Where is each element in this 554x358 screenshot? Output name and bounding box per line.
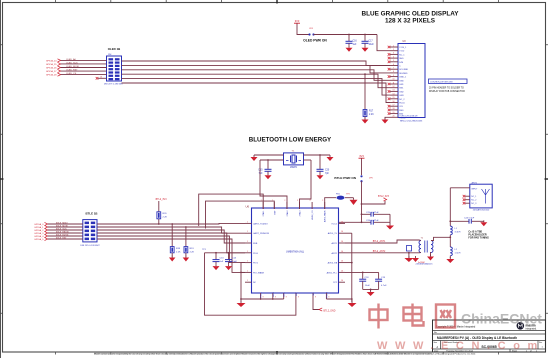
svg-text:2: 2 (310, 200, 311, 202)
svg-text:ANT2: ANT2 (332, 252, 338, 255)
svg-text:V DD: V DD (399, 51, 404, 53)
capacitor C14 (228, 252, 230, 254)
U6 top pin REF (273, 202, 275, 209)
svg-text:1: 1 (247, 231, 248, 233)
U6 left pin PIO1 (245, 262, 252, 264)
svg-text:PIO_WAKE: PIO_WAKE (253, 271, 265, 274)
ground balun left (415, 256, 417, 258)
svg-text:5: 5 (393, 60, 394, 62)
wire rail to header pin2 (377, 35, 390, 51)
svg-text:11: 11 (393, 82, 395, 84)
svg-text:BLUETOOTH LOW ENERGY: BLUETOOTH LOW ENERGY (249, 137, 332, 144)
svg-text:GPIOA_1: GPIOA_1 (34, 226, 44, 229)
svg-text:9: 9 (298, 297, 299, 299)
svg-text:8: 8 (393, 71, 394, 73)
U6 top pin AVD0_PADR (324, 202, 326, 209)
capacitor C21 placeholder (407, 246, 412, 252)
svg-text:HCLD: HCLD (399, 103, 405, 105)
U6 right pin AVD0_PLL (339, 271, 346, 273)
border mid ticks (0, 178, 4, 180)
wire bundle BTLE signals (97, 222, 245, 225)
svg-text:1uF: 1uF (353, 44, 358, 46)
svg-text:3: 3 (393, 53, 394, 55)
svg-text:16: 16 (341, 251, 343, 253)
svg-text:1: 1 (247, 261, 248, 263)
note box 20-pin header (429, 79, 468, 84)
U6 bottom pin AIO0 (272, 293, 274, 299)
svg-text:10uF: 10uF (365, 285, 371, 287)
svg-text:OLED_SCK: OLED_SCK (66, 62, 78, 64)
svg-text:15: 15 (393, 97, 395, 99)
svg-text:FOR PAD TUNING: FOR PAD TUNING (468, 236, 489, 239)
svg-text:2: 2 (297, 200, 298, 202)
svg-text:BTL2_3V3: BTL2_3V3 (156, 199, 168, 201)
svg-text:NHD-2.23-12832UCB3: NHD-2.23-12832UCB3 (400, 121, 423, 123)
resistor R17 (364, 74, 366, 109)
wire SEL pin flag (313, 299, 319, 310)
wire jumper down to VCC2 (361, 181, 363, 222)
svg-text:2: 2 (284, 200, 285, 202)
wire AVD0_PA stub (345, 262, 352, 264)
U6 left pin PIO_WAKE (245, 271, 252, 273)
svg-text:V SS_1: V SS_1 (399, 47, 407, 49)
svg-text:2.2K: 2.2K (369, 114, 374, 116)
svg-text:9: 9 (286, 297, 287, 299)
svg-text:AVD0_1V: AVD0_1V (328, 232, 338, 235)
svg-text:UMB9766A (NL): UMB9766A (NL) (286, 250, 304, 253)
svg-text:U6: U6 (246, 205, 250, 209)
U6 right pin ANT2 (339, 252, 346, 254)
svg-text:13: 13 (100, 77, 102, 79)
svg-text:GPIOA_24: GPIOA_24 (46, 59, 57, 62)
capacitor C13 (215, 252, 217, 254)
svg-text:SSB: SSB (253, 243, 258, 245)
connector display header body (398, 44, 425, 118)
svg-text:16: 16 (341, 261, 343, 263)
capacitor C18 (362, 272, 364, 274)
svg-text:NC: NC (253, 282, 257, 284)
resistor R18 (171, 223, 173, 225)
svg-text:1: 1 (393, 45, 394, 47)
svg-text:NC_1: NC_1 (471, 196, 477, 198)
capacitor C16 (348, 34, 350, 36)
svg-text:7: 7 (393, 68, 394, 70)
svg-text:BTL2_ANT2: BTL2_ANT2 (373, 250, 386, 253)
wire BTLE_RDYN left (48, 235, 83, 237)
svg-text:2.2K: 2.2K (163, 216, 168, 218)
svg-text:BTLE_RST: BTLE_RST (56, 237, 67, 239)
ground right bus (351, 301, 353, 303)
svg-text:INPUT: INPUT (471, 188, 478, 190)
svg-text:BTLE PWR ON: BTLE PWR ON (334, 176, 356, 180)
wire caps to ground (389, 214, 391, 224)
svg-text:XTAL1: XTAL1 (262, 210, 265, 217)
wire BTLE_RST left (48, 238, 83, 240)
svg-text:BTLE 1B: BTLE 1B (85, 212, 97, 216)
U6 bottom pin SEL (312, 293, 314, 299)
connector OLED 1B body (107, 56, 122, 81)
wire row4 extension (205, 252, 246, 254)
wire BTLE_SCK left (48, 229, 83, 231)
svg-text:GPIOA_25: GPIOA_25 (46, 63, 57, 66)
U6 top pin XTAL3 (299, 202, 301, 209)
svg-text:R17: R17 (369, 111, 374, 113)
wire U6 top pin2 step (206, 201, 275, 228)
U6 left pin SSB (245, 242, 252, 244)
svg-text:9: 9 (263, 297, 264, 299)
ground C18 C19 (370, 290, 372, 292)
svg-text:1: 1 (247, 270, 248, 272)
crystal Y1 body (284, 153, 304, 165)
U6 right pin VCC2 (339, 222, 346, 224)
svg-text:GND_1: GND_1 (399, 77, 407, 79)
svg-text:NC_2: NC_2 (399, 99, 405, 101)
svg-text:12: 12 (393, 86, 395, 88)
svg-text:BTL2_GND: BTL2_GND (324, 311, 336, 313)
svg-text:integrated.: integrated. (526, 328, 538, 331)
wire U6 pin to ferrite (325, 198, 336, 209)
svg-text:C24 0.5pF: C24 0.5pF (464, 217, 475, 219)
U6 left pin UART_TX&SIO (245, 222, 252, 224)
wire crystal right rail (304, 154, 331, 156)
U6 left pin PIO0 (245, 252, 252, 254)
svg-text:OLED_CS: OLED_CS (66, 73, 77, 75)
svg-text:1.5nH: 1.5nH (455, 252, 461, 254)
svg-text:UART_RX/MOSI: UART_RX/MOSI (253, 232, 269, 235)
svg-text:2450AT18D0100: 2450AT18D0100 (473, 209, 490, 212)
ground under header (385, 117, 390, 118)
U6 bottom pin VSS_1 (260, 293, 262, 299)
wire antenna main vertical (449, 188, 451, 226)
svg-text:20 PIN HEADER TO SOLDER TO: 20 PIN HEADER TO SOLDER TO (429, 87, 464, 90)
svg-text:GPIOA_3: GPIOA_3 (34, 232, 44, 235)
ground right of crystal (329, 155, 331, 157)
svg-text:D/M: D/M (399, 62, 403, 64)
svg-text:GPIOA_4: GPIOA_4 (34, 235, 44, 238)
svg-text:1: 1 (247, 280, 248, 282)
wire OLED_CS (61, 74, 107, 76)
svg-text:SHD: SHD (399, 58, 404, 60)
svg-text:1: 1 (247, 241, 248, 243)
wire AVD0_1V stub (345, 232, 352, 234)
svg-text:GPIOA_28: GPIOA_28 (46, 74, 57, 77)
wire trunk left pins (241, 263, 245, 302)
wire caps common to ground (363, 288, 379, 290)
svg-text:OLED-128-32-BLUE: OLED-128-32-BLUE (399, 116, 418, 118)
svg-text:BTLE_RDYN: BTLE_RDYN (56, 234, 69, 236)
svg-text:OLED PWR ON: OLED PWR ON (303, 39, 327, 43)
svg-text:7pF: 7pF (259, 173, 264, 175)
svg-text:2.2K: 2.2K (190, 251, 195, 253)
svg-text:DNI 2X7 0.1IN SMT: DNI 2X7 0.1IN SMT (104, 83, 124, 85)
capacitor C25 (361, 213, 363, 215)
svg-text:BTLE_MOSI: BTLE_MOSI (56, 225, 68, 227)
wire OLED_RST (61, 70, 107, 72)
wire crystal left rail (254, 154, 284, 156)
svg-text:AVD0_PADR: AVD0_PADR (324, 210, 327, 222)
border zone ticks (0, 44, 3, 46)
svg-text:AVD0_PA: AVD0_PA (328, 262, 338, 265)
power arrow after ferrite (350, 200, 358, 205)
svg-text:BTL2_ANT1: BTL2_ANT1 (373, 240, 386, 243)
svg-text:OLED_MOSI: OLED_MOSI (66, 66, 79, 68)
svg-text:13: 13 (393, 90, 395, 92)
svg-text:4.7nF: 4.7nF (381, 285, 387, 287)
svg-text:C25 0.047uF: C25 0.047uF (366, 212, 379, 214)
svg-text:RES: RES (399, 110, 404, 112)
svg-text:17: 17 (393, 105, 395, 107)
svg-text:4: 4 (393, 56, 394, 58)
U6 top pin XTAL2 (286, 202, 288, 209)
svg-text:3V3: 3V3 (295, 19, 300, 23)
svg-text:16: 16 (341, 231, 343, 233)
capacitor C17 (364, 34, 366, 36)
disclaimer text (94, 353, 432, 355)
wire 3V3 to JP4 (297, 26, 309, 35)
inductor L1 (450, 226, 452, 229)
wire U6 top pin1 step (199, 194, 264, 226)
wire XTAL2 to U6 (304, 159, 312, 161)
U6 right pin AVD0_1V (339, 232, 346, 234)
wire BTL2_ANT1 (345, 240, 420, 243)
resistor R19 (185, 226, 187, 228)
wire OLED power rail (314, 34, 378, 36)
svg-text:CON-HDR-20P-SMT-DNI: CON-HDR-20P-SMT-DNI (430, 81, 453, 83)
svg-text:2450BM15A0015: 2450BM15A0015 (416, 263, 434, 266)
svg-text:10pF: 10pF (232, 261, 238, 263)
svg-text:SDI/SBD: SDI/SBD (399, 73, 408, 75)
wire L1 to node (449, 235, 451, 247)
svg-text:2: 2 (393, 49, 394, 51)
wire L2 to ground (449, 256, 451, 258)
wire ANT2 to ground (408, 253, 410, 258)
U6 bottom pin RST (295, 293, 297, 299)
title block frame (433, 320, 546, 352)
capacitor C20 (319, 154, 321, 156)
U6 bottom pin VSS_2 (325, 293, 327, 299)
resistor R20 (157, 212, 161, 219)
U6 right pin 1P2 (339, 281, 346, 283)
svg-text:GPIOA_2: GPIOA_2 (34, 229, 44, 232)
svg-text:18: 18 (393, 108, 395, 110)
svg-text:PIO0: PIO0 (253, 253, 259, 255)
svg-text:6: 6 (393, 64, 394, 66)
U6 left pin UART_RX/MOSI (245, 232, 252, 234)
svg-text:128 X 32 PIXELS: 128 X 32 PIXELS (385, 18, 436, 25)
pin stub with x (OLED 1B pin 13) (98, 77, 107, 79)
capacitor C15 (267, 159, 269, 161)
ground left of crystal (253, 155, 255, 157)
svg-text:C20: C20 (325, 170, 330, 172)
maxim logo (517, 322, 525, 330)
svg-text:OLED 1B: OLED 1B (108, 47, 121, 51)
wire VSS2 to ground (326, 299, 352, 302)
U6 right pin ANT1 (339, 242, 346, 244)
svg-text:DNI: DNI (108, 54, 112, 56)
ground after C24 (483, 220, 485, 222)
ground ANT2 (408, 256, 410, 258)
net flag BTL2_GND (319, 308, 322, 311)
wire long reset loop (205, 253, 296, 315)
svg-text:16MHz: 16MHz (290, 167, 298, 169)
svg-text:BTLE_SCK: BTLE_SCK (56, 228, 67, 230)
svg-text:2: 2 (322, 200, 323, 202)
svg-text:16: 16 (393, 101, 395, 103)
sheet edge line (0, 0, 2, 358)
svg-text:C17: C17 (369, 41, 374, 43)
svg-text:1uF: 1uF (220, 261, 224, 263)
svg-text:NC_3: NC_3 (471, 203, 477, 205)
connector BTLE 1B body (83, 220, 97, 242)
svg-text:C15: C15 (258, 170, 263, 172)
svg-text:XTAL2: XTAL2 (286, 210, 289, 217)
svg-text:16: 16 (341, 270, 343, 272)
svg-text:GPIOA_5: GPIOA_5 (34, 238, 44, 241)
svg-text:DNI 2X5 0.1IN SMT: DNI 2X5 0.1IN SMT (80, 245, 100, 247)
ferrite bead FB1 (337, 196, 345, 200)
wire XTAL1 to U6 (260, 159, 284, 161)
svg-text:ChinaECNet: ChinaECNet (461, 311, 542, 327)
balun right bottom to ground (430, 253, 433, 257)
svg-text:XTAL3: XTAL3 (299, 210, 302, 217)
wire 3V3 down (361, 158, 363, 175)
svg-text:No.: No. (434, 332, 438, 334)
svg-text:20: 20 (393, 116, 395, 118)
svg-text:GPIOA_0: GPIOA_0 (34, 223, 44, 226)
svg-text:BTLE_MISO: BTLE_MISO (56, 222, 68, 224)
wire OLED_A0 (61, 59, 107, 61)
wire bottom pins to ground trunk (241, 298, 261, 300)
wire ferrite to power arrow (345, 197, 354, 199)
svg-text:WWW.ECN.Com: WWW.ECN.Com (377, 340, 545, 352)
svg-text:NC_1: NC_1 (399, 54, 405, 56)
wire OLED_MOSI (61, 67, 107, 69)
wire BTLE_MOSI left (48, 226, 83, 228)
balun left leads (420, 239, 422, 242)
svg-text:DISPLAY FOR PCB CONNECTOR: DISPLAY FOR PCB CONNECTOR (429, 90, 465, 93)
svg-text:9: 9 (315, 297, 316, 299)
capacitor C26 (362, 221, 371, 223)
svg-text:9: 9 (328, 297, 329, 299)
wire BTLE_REQN left (48, 232, 83, 234)
svg-text:16: 16 (341, 221, 343, 223)
U6 bottom pin AIO1 (283, 293, 285, 299)
inductor L2 (450, 247, 452, 250)
wire bundle OLED signals (122, 61, 391, 66)
svg-text:AVD0_PLL: AVD0_PLL (327, 271, 338, 274)
U6 left pin NC (245, 281, 252, 283)
wire OLED_SCK (61, 63, 107, 65)
svg-text:16: 16 (341, 280, 343, 282)
wire VCC2 (339, 221, 362, 223)
svg-text:PIO1: PIO1 (253, 263, 259, 265)
svg-text:C26 0.047uF: C26 0.047uF (366, 220, 379, 222)
svg-text:7pF: 7pF (325, 173, 330, 175)
svg-text:C16: C16 (353, 41, 358, 43)
svg-text:AVD0_XO: AVD0_XO (311, 210, 314, 220)
watermark chinese characters (370, 304, 456, 329)
balun right top wire (431, 237, 450, 240)
wire BTLE_MISO left (48, 223, 83, 225)
svg-text:3.3nH: 3.3nH (455, 231, 461, 233)
svg-text:OLED_RST: OLED_RST (66, 69, 78, 71)
U6 top pin XTAL1 (262, 202, 264, 209)
svg-text:9: 9 (275, 297, 276, 299)
svg-text:14: 14 (393, 93, 395, 95)
svg-text:UART_TX&SIO: UART_TX&SIO (253, 222, 268, 225)
wire AVD0_PLL row (345, 271, 379, 273)
vertical right ground bus (351, 233, 353, 302)
svg-text:19: 19 (393, 112, 395, 114)
U6 top pin AVD0_XO (311, 202, 313, 209)
svg-text:BTLE_REQN: BTLE_REQN (56, 231, 69, 233)
svg-text:3V3: 3V3 (359, 154, 364, 158)
svg-text:16: 16 (341, 241, 343, 243)
wire BTL2_ANT2 (345, 252, 420, 254)
svg-text:GPIOA_27: GPIOA_27 (46, 70, 57, 73)
ground caps C25 C26 (389, 224, 391, 226)
svg-text:GPIOA_26: GPIOA_26 (46, 67, 57, 70)
svg-text:9: 9 (393, 75, 394, 77)
svg-text:VCC2: VCC2 (331, 223, 338, 225)
svg-text:SCL/SBD: SCL/SBD (399, 69, 408, 71)
ground trunk (240, 301, 242, 303)
svg-text:2.2K: 2.2K (176, 251, 181, 253)
svg-text:Maxim cannot assume responsibi: Maxim cannot assume responsibility for u… (94, 352, 476, 355)
wire pullup (158, 201, 160, 212)
svg-text:OLED_A0: OLED_A0 (66, 58, 77, 61)
capacitor C24 (449, 220, 451, 222)
svg-text:NC_2: NC_2 (471, 200, 477, 202)
capacitor C19 (378, 272, 380, 278)
U6 right pin AVD0_PA (339, 262, 346, 264)
svg-text:10uF: 10uF (369, 44, 375, 46)
svg-text:1: 1 (247, 251, 248, 253)
svg-text:BLUE GRAPHIC OLED DISPLAY: BLUE GRAPHIC OLED DISPLAY (361, 11, 459, 18)
svg-text:ANT1: ANT1 (332, 242, 338, 245)
svg-text:1: 1 (247, 221, 248, 223)
svg-text:10: 10 (393, 79, 395, 81)
